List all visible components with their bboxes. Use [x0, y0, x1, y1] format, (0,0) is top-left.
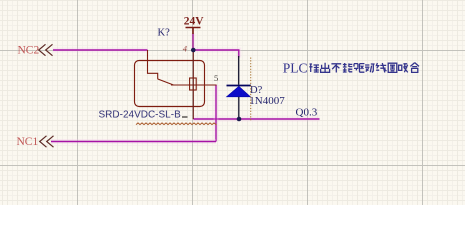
wire 24V stub down	[191, 34, 196, 51]
wire pin5 down to NC1	[214, 85, 219, 142]
驱	[354, 64, 364, 73]
error dotted vertical	[250, 58, 252, 122]
动	[365, 64, 375, 72]
error squiggle under relay	[136, 123, 217, 125]
svg-text:5: 5	[214, 73, 218, 83]
wire bottom net Q0.3	[193, 117, 319, 122]
wire NC1 horizontal	[51, 139, 216, 144]
出	[321, 63, 330, 73]
power port 24V	[184, 16, 205, 34]
svg-text:4: 4	[183, 44, 188, 54]
label D?	[250, 85, 263, 96]
wire 24V junction to diode top	[193, 50, 239, 58]
net label Q0.3	[296, 106, 318, 118]
wire NC2 to relay pin	[53, 48, 148, 53]
svg-text:PLC: PLC	[283, 61, 308, 76]
线	[376, 63, 386, 73]
pin number 4	[183, 44, 188, 54]
svg-text:NC2: NC2	[18, 44, 40, 56]
svg-text:NC1: NC1	[17, 136, 39, 148]
svg-text:K?: K?	[158, 28, 171, 39]
svg-text:1N4007: 1N4007	[249, 95, 285, 107]
不	[331, 64, 341, 73]
junction dot at 24V node	[191, 48, 196, 53]
port NC2	[18, 44, 53, 56]
svg-text:Q0.3: Q0.3	[296, 106, 318, 118]
pin number 5	[214, 73, 218, 83]
relay K? body	[135, 61, 205, 107]
label SRD-24VDC-SL-B	[99, 110, 182, 121]
svg-text:SRD-24VDC-SL-B: SRD-24VDC-SL-B	[99, 110, 182, 121]
relay coil pin vertical	[192, 50, 194, 119]
圈	[388, 63, 397, 72]
能	[343, 63, 352, 72]
合	[410, 63, 419, 73]
label 1N4007	[249, 95, 285, 107]
吸	[399, 64, 408, 73]
svg-text:24V: 24V	[184, 16, 205, 28]
relay switch contact	[148, 50, 217, 85]
stub dash	[182, 116, 188, 118]
port NC1	[17, 136, 54, 148]
relay coil rect	[190, 78, 197, 90]
label K?	[158, 28, 171, 39]
comment text PLC...	[283, 61, 419, 76]
输	[309, 64, 319, 72]
diode D?	[227, 56, 252, 119]
junction dot at diode anode	[237, 117, 242, 122]
